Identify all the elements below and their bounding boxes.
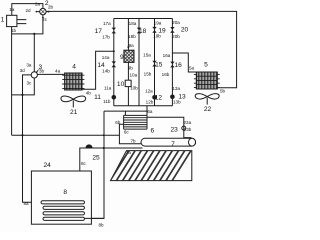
wire valve2 bottom to suction manifold	[12, 15, 43, 34]
branch v4	[171, 19, 173, 106]
svg-text:7: 7	[171, 141, 175, 148]
svg-text:12: 12	[155, 94, 163, 101]
wire v4 branch to HX5	[172, 53, 196, 72]
valves row1	[112, 27, 175, 100]
wire suction vertical left	[11, 27, 13, 136]
coil 6	[124, 115, 147, 129]
svg-text:8: 8	[63, 189, 67, 196]
svg-text:22: 22	[204, 106, 212, 113]
svg-text:11: 11	[94, 94, 101, 101]
valve 3	[31, 72, 37, 78]
svg-text:4b: 4b	[86, 91, 92, 96]
wire valve2 right along top to right frame and HX5	[46, 11, 237, 87]
branch v3	[154, 19, 156, 106]
svg-text:7a: 7a	[126, 150, 132, 155]
svg-text:2d: 2d	[25, 8, 31, 13]
wire valve3 left port down to tank	[23, 75, 41, 202]
svg-text:13b: 13b	[173, 99, 181, 104]
labels small	[9, 2, 225, 228]
junction dots	[21, 33, 114, 149]
expansion box 10	[125, 80, 131, 86]
svg-text:3c: 3c	[26, 80, 32, 85]
svg-text:10b: 10b	[130, 86, 138, 91]
wire suction manifold bottom	[12, 134, 120, 136]
svg-text:4: 4	[72, 64, 76, 71]
svg-text:20a: 20a	[172, 20, 180, 25]
svg-text:16a: 16a	[163, 53, 171, 58]
svg-text:10: 10	[117, 81, 125, 88]
svg-text:3d: 3d	[20, 68, 26, 73]
svg-text:1a: 1a	[9, 7, 15, 12]
svg-text:18: 18	[139, 28, 147, 35]
svg-text:10a: 10a	[129, 72, 137, 77]
svg-text:6c: 6c	[124, 129, 130, 134]
bottom line A	[114, 105, 173, 107]
svg-text:1b: 1b	[11, 28, 17, 33]
pump 23	[182, 126, 186, 130]
svg-text:5: 5	[204, 62, 208, 69]
pump 25	[86, 144, 93, 148]
filter drier 9	[124, 50, 134, 62]
svg-text:25: 25	[92, 155, 100, 162]
svg-text:14a: 14a	[102, 55, 110, 60]
svg-text:14b: 14b	[102, 69, 110, 74]
wire pump25 line	[80, 148, 143, 171]
fan 22	[195, 94, 219, 99]
svg-text:4a: 4a	[55, 68, 61, 73]
svg-text:19b: 19b	[153, 34, 161, 39]
svg-text:17b: 17b	[102, 35, 110, 40]
line B	[104, 110, 147, 112]
heat exchanger 4 (finned coil)	[65, 73, 82, 90]
wire coil8 exit	[85, 217, 105, 219]
compressor side stubs	[17, 20, 26, 24]
svg-text:15a: 15a	[143, 53, 151, 58]
wire coil6 water to pump23	[147, 117, 191, 139]
svg-text:3a: 3a	[26, 63, 32, 68]
svg-text:15b: 15b	[144, 71, 152, 76]
svg-text:7b: 7b	[130, 138, 136, 143]
svg-text:15: 15	[155, 62, 163, 69]
svg-text:17: 17	[95, 28, 103, 35]
wire valve3 bottom port	[12, 78, 35, 95]
compressor U1 box	[7, 15, 17, 26]
svg-text:11a: 11a	[104, 86, 112, 91]
svg-text:5a: 5a	[189, 66, 195, 71]
svg-text:8c: 8c	[81, 161, 87, 166]
wire coil6 6b down to 7b line	[119, 124, 141, 144]
svg-text:11b: 11b	[103, 99, 111, 104]
svg-text:13a: 13a	[172, 86, 180, 91]
svg-text:6b: 6b	[115, 120, 121, 125]
collector header 7	[141, 138, 196, 146]
svg-text:6: 6	[150, 128, 154, 135]
svg-text:17a: 17a	[103, 21, 111, 26]
labels big	[1, 0, 212, 196]
wire valve3 right port to HX4	[37, 73, 64, 75]
svg-text:9: 9	[120, 54, 124, 61]
svg-text:16: 16	[175, 62, 183, 69]
svg-text:18b: 18b	[128, 34, 136, 39]
tank coil 8	[41, 201, 85, 221]
tank 24	[31, 171, 91, 224]
svg-text:21: 21	[70, 109, 78, 116]
svg-text:12a: 12a	[145, 89, 153, 94]
wire valve3 top branch	[33, 34, 35, 72]
valve 2 port arrows	[35, 11, 50, 19]
stub B to coil	[124, 111, 126, 115]
branch v1	[113, 19, 115, 106]
wire HX4 out 4b riser to v1	[82, 51, 114, 89]
svg-text:2c: 2c	[42, 17, 48, 22]
four-way valve 2	[40, 8, 46, 14]
svg-text:2a: 2a	[35, 2, 41, 7]
branch v2	[138, 19, 140, 106]
svg-text:19a: 19a	[154, 21, 162, 26]
branch vm	[127, 19, 129, 106]
arrow 9a	[127, 47, 130, 49]
heat exchanger 5 (finned coil)	[196, 72, 217, 89]
collector panel	[111, 151, 192, 181]
svg-text:1: 1	[1, 17, 5, 24]
fan 21	[61, 96, 86, 102]
svg-text:20b: 20b	[172, 34, 180, 39]
svg-text:20: 20	[181, 27, 189, 34]
svg-text:23b: 23b	[184, 127, 192, 132]
svg-text:18a: 18a	[129, 21, 137, 26]
svg-text:5b: 5b	[220, 89, 226, 94]
svg-text:23a: 23a	[183, 120, 191, 125]
svg-text:9b: 9b	[128, 66, 134, 71]
svg-text:23: 23	[171, 126, 179, 133]
svg-text:2b: 2b	[48, 5, 54, 10]
top bus	[114, 18, 173, 20]
svg-text:24: 24	[44, 162, 52, 169]
svg-text:8b: 8b	[98, 223, 104, 228]
svg-text:16b: 16b	[162, 72, 170, 77]
valves row3	[112, 95, 117, 100]
valves row2	[112, 61, 116, 67]
wire 8b riser	[92, 111, 105, 218]
svg-text:3b: 3b	[39, 68, 45, 73]
svg-text:9a: 9a	[129, 43, 135, 48]
riser 6a	[146, 106, 148, 116]
svg-text:12b: 12b	[146, 99, 154, 104]
svg-text:6a: 6a	[147, 109, 153, 114]
wire discharge 1a to valve 2	[12, 4, 43, 16]
svg-text:8a: 8a	[23, 201, 29, 206]
